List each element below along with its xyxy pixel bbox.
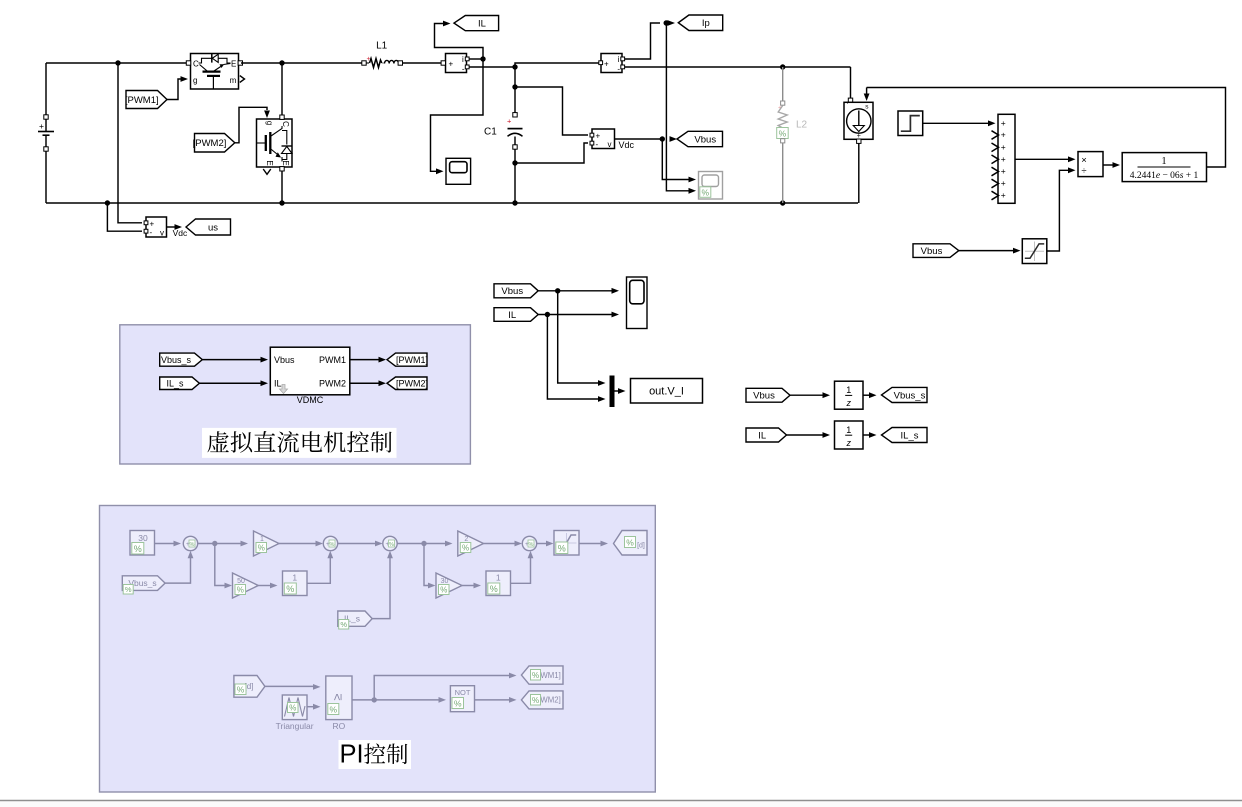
node PI junction 1 (212, 541, 217, 546)
wire PWM1 to IGBT1 gate (167, 79, 181, 100)
goto tag Vbus_s (882, 387, 928, 402)
svg-text:-: - (150, 228, 153, 237)
svg-text:Vdc: Vdc (619, 140, 635, 150)
svg-text:1: 1 (846, 385, 851, 395)
from tag Vbus (middle) (494, 284, 538, 298)
wire battery rail to us meas plus (118, 63, 142, 223)
transistor IGBT1 (IGBT/Diode block) (191, 54, 239, 90)
wire C1 to Vdc plus (515, 87, 588, 135)
node C1 plus tap (512, 84, 517, 89)
goto tag [PWM2] (VDMC) (387, 377, 427, 390)
integrator block I2 (486, 571, 511, 596)
svg-text:1: 1 (496, 573, 501, 583)
inductor L1 (series RL branch) (362, 61, 366, 65)
label 虚拟直流电机控制 (caption) (202, 428, 397, 458)
wire Vbus to scope3 (538, 290, 612, 292)
svg-text:i: i (618, 55, 620, 64)
node IL mid junction (545, 312, 550, 317)
svg-text:': ' (847, 102, 848, 109)
wire junction2 down to gain30 (424, 544, 429, 586)
goto tag IL (454, 16, 499, 31)
svg-text:+: + (1001, 130, 1006, 140)
svg-text:×: × (1081, 155, 1087, 166)
svg-text:1: 1 (846, 425, 851, 435)
svg-text:+: + (449, 60, 454, 69)
svg-text:+: + (39, 121, 44, 131)
label PI控制 (caption) (339, 740, 412, 769)
wire Ip to scope2 in2 (666, 25, 689, 191)
wire const to sum1 (155, 543, 175, 545)
svg-text:-: - (596, 140, 599, 149)
wire bottom bus (46, 202, 858, 204)
window bottom edge (0, 800, 1242, 802)
svg-text:+: + (507, 117, 512, 126)
wire PWM2 to IGBT2 gate (235, 107, 267, 143)
svg-text:+: + (1001, 154, 1006, 164)
svg-text:PI: PI (340, 741, 364, 769)
wire Ip arrow (668, 20, 676, 26)
svg-text:[PWM2]: [PWM2] (193, 138, 227, 149)
from tag IL (delay row) (746, 428, 787, 442)
svg-text:2: 2 (464, 536, 468, 543)
svg-text:%: % (134, 544, 142, 554)
goto tag us (186, 219, 231, 235)
controlled current source CS1 (848, 98, 852, 102)
svg-text:L2: L2 (796, 120, 808, 131)
wire IGBT2 collector up (281, 63, 283, 115)
svg-text:%: % (454, 698, 462, 708)
svg-text:z: z (845, 438, 851, 448)
svg-text:%: % (286, 584, 294, 594)
unit delay 1/z (Vbus) (835, 381, 864, 409)
svg-text:IL: IL (508, 310, 516, 321)
sum circle S3 (383, 536, 397, 550)
wire sum3 to junction2 (397, 543, 446, 545)
node PI junction 2 (421, 541, 426, 546)
node C1 minus tap (512, 160, 517, 165)
svg-text:Vbus: Vbus (501, 286, 523, 297)
svg-text:v: v (160, 228, 164, 237)
sum circle S2 (323, 536, 337, 550)
wire Vbus to scope2 in1 (662, 139, 689, 180)
wire us meas out (167, 226, 176, 228)
wire bus tap to us meas minus (107, 203, 142, 231)
wire triangular to RO (307, 706, 314, 708)
wire junction1 down to gain50 (215, 544, 226, 586)
outport block out.V_I (631, 379, 703, 404)
node C1 top junction (512, 64, 517, 69)
wire Vbus_s to sum1 (165, 557, 190, 583)
from tag Vbus (right) (913, 244, 959, 258)
wire IL up path (435, 24, 484, 60)
svg-text:30: 30 (138, 533, 148, 543)
svg-text:1: 1 (260, 536, 264, 543)
transfer function 1/(4.2441e-06s+1) (1122, 153, 1206, 182)
svg-text:L1: L1 (376, 41, 388, 52)
svg-text:+: + (1001, 142, 1006, 152)
svg-text:1: 1 (1161, 156, 1166, 167)
svg-text:IL: IL (274, 379, 282, 389)
wire TF feedback loop (867, 88, 1226, 168)
svg-text:1: 1 (292, 573, 297, 583)
svg-text:RO: RO (333, 721, 346, 731)
svg-text:PWM2: PWM2 (319, 379, 346, 389)
node RO junction (372, 697, 377, 702)
svg-text:%: % (626, 537, 634, 547)
transistor IGBT2 (IGBT/Diode block, rotated) (257, 119, 293, 167)
svg-text:Vbus_s: Vbus_s (161, 355, 192, 365)
node Vbus mid junction (555, 288, 560, 293)
svg-text:v: v (608, 140, 612, 149)
step source Step (898, 111, 923, 136)
svg-text:%: % (340, 620, 347, 629)
svg-text:%: % (558, 543, 566, 553)
svg-text:Ip: Ip (702, 18, 710, 29)
wire CM2 minus rail (625, 66, 851, 68)
wire product to TF (1103, 164, 1113, 166)
goto tag Ip (678, 15, 722, 31)
svg-text:z: z (845, 398, 851, 408)
inductor L2 (commented through) (782, 67, 784, 101)
svg-text:us: us (208, 222, 218, 233)
gain block G1 (1) (254, 531, 280, 556)
svg-text:PWM1: PWM1 (319, 355, 346, 365)
svg-text:IL: IL (478, 19, 486, 30)
svg-text:[PWM1]: [PWM1] (396, 355, 428, 365)
svg-text:E: E (265, 160, 274, 165)
svg-text:%: % (490, 584, 498, 594)
wire d to RO (265, 685, 314, 687)
wire CM2 i to Ip (625, 23, 661, 59)
svg-text:-: - (617, 65, 620, 74)
svg-text:Triangular: Triangular (276, 721, 314, 731)
product block Divide (1078, 152, 1103, 177)
wire saturation to goto d (579, 543, 602, 545)
from tag [PWM1] (126, 91, 167, 109)
wire sum4 to saturation (537, 543, 547, 545)
wire L1 to current meas (403, 62, 444, 64)
svg-text:[PWM1]: [PWM1] (125, 95, 159, 106)
wire CM1 i out (469, 58, 483, 60)
area box PI control (100, 506, 656, 793)
svg-text:≥: ≥ (331, 693, 345, 700)
area box VDMC (virtual DC motor control) (120, 325, 471, 464)
wire RO to PWM1 (374, 676, 510, 700)
wire IL to mux (547, 315, 598, 400)
svg-text:IL_s: IL_s (901, 430, 919, 441)
svg-text:E: E (231, 59, 236, 68)
current measurement CM1 (446, 54, 467, 73)
current measurement CM2 (601, 54, 622, 73)
goto tag [PWM1] (PI) (521, 666, 563, 684)
svg-text:[PWM2]: [PWM2] (396, 378, 428, 388)
goto tag [PWM2] (PI) (521, 691, 563, 709)
node Ip junction (664, 20, 669, 25)
svg-text:%: % (330, 542, 335, 548)
from tag [PWM2] (195, 134, 235, 153)
wire int2 to sum4 (511, 557, 531, 583)
svg-text:g: g (193, 76, 197, 85)
svg-text:Vbus: Vbus (753, 391, 775, 402)
svg-text:%: % (237, 684, 245, 694)
wire to CM2 (515, 63, 599, 67)
from tag Vbus (delay row) (746, 388, 790, 402)
from tag Vbus_s (PI) (122, 576, 165, 591)
svg-text:30: 30 (441, 578, 449, 585)
svg-text:-: - (462, 65, 465, 74)
svg-text:out.V_I: out.V_I (649, 386, 684, 398)
scope Scope2 (commented out) (699, 172, 723, 200)
wire gain2 to sum4 (484, 543, 516, 545)
wire delay to Vbus_s (863, 394, 869, 396)
wire Vdc out (615, 138, 665, 140)
voltage measurement us (Vdc) (146, 217, 167, 237)
from tag IL_s (PI) (338, 611, 372, 626)
wire add to product (1015, 158, 1069, 160)
from tag IL_s (VDMC) (160, 377, 200, 390)
goto tag [d] (614, 531, 648, 556)
svg-text:+: + (1001, 178, 1006, 188)
svg-text:%: % (532, 696, 539, 705)
node Vbus junction (660, 136, 665, 141)
not block NOT (450, 686, 474, 712)
wire sum2 to sum3 (338, 543, 376, 545)
wire int1 to sum2 (307, 557, 330, 583)
scope Scope1 (446, 158, 471, 184)
svg-text:%: % (462, 543, 469, 552)
svg-text:+: + (1001, 166, 1006, 176)
svg-text:%: % (330, 704, 338, 714)
wire Vbus arrow (670, 136, 678, 142)
svg-text:%: % (702, 187, 710, 197)
svg-text:%: % (258, 543, 265, 552)
wire IGBT2 emitter down (281, 171, 283, 203)
svg-text:NOT: NOT (455, 688, 471, 697)
wire feedback into s port (866, 88, 868, 95)
constant block 30 (130, 531, 155, 556)
wire gain50 to integrator1 (258, 585, 271, 587)
wire scope1 path (431, 59, 484, 171)
svg-text:÷: ÷ (1081, 166, 1086, 177)
DC voltage source E1 (battery) (45, 63, 47, 117)
svg-text:m: m (230, 76, 237, 85)
gain block G4 (30) (436, 573, 462, 598)
svg-text:%: % (289, 703, 296, 712)
wire IL to scope3 (538, 314, 612, 316)
saturation block (1022, 239, 1047, 264)
triangular wave source (282, 695, 307, 720)
scope Scope3 (627, 277, 648, 329)
wire Vbus_s to VDMC (202, 359, 261, 361)
node top-left junction (115, 60, 120, 65)
saturation block (PI) (554, 531, 579, 556)
wire VDMC PWM2 out (350, 382, 379, 384)
wire top rail left (46, 62, 188, 64)
wire Vbus to unit delay (790, 394, 823, 396)
wire IL to unit delay (787, 434, 824, 436)
wire IL_s to VDMC (199, 382, 261, 384)
wire RO out (352, 699, 440, 701)
svg-text:IL: IL (758, 430, 766, 441)
svg-text:%: % (125, 585, 132, 594)
unit delay 1/z (IL) (835, 421, 864, 449)
wire NOT to PWM2 (475, 699, 511, 701)
wire rail to current source (850, 67, 852, 99)
node L2 top junction (780, 64, 785, 69)
wire top rail mid (241, 62, 364, 64)
from tag Vbus_s (VDMC) (160, 353, 203, 366)
wire CM1 minus to C1 node (469, 66, 515, 68)
gain block G2 (2) (458, 531, 484, 556)
svg-text:C: C (193, 59, 199, 68)
svg-text:%: % (529, 542, 534, 548)
svg-text:VDMC: VDMC (297, 395, 324, 405)
gain block G3 (50) (233, 573, 259, 598)
node IL junction (480, 56, 485, 61)
svg-text:g: g (265, 121, 274, 125)
from tag [d] (PI) (234, 676, 265, 698)
sum circle S1 (183, 536, 197, 550)
svg-text:Vbus: Vbus (694, 134, 716, 145)
svg-text:%: % (389, 542, 394, 548)
goto tag IL_s (882, 428, 928, 443)
goto tag Vbus (top) (677, 131, 723, 146)
voltage measurement Vdc (592, 129, 615, 149)
sum block Add (7 inputs) (998, 114, 1015, 203)
from tag IL (middle) (494, 308, 538, 322)
svg-text:4.2441e − 06s + 1: 4.2441e − 06s + 1 (1130, 171, 1199, 181)
integrator block I1 (283, 571, 308, 596)
svg-text:IL_s: IL_s (166, 378, 184, 388)
wire VDMC PWM1 out (350, 359, 379, 361)
svg-text:Vbus: Vbus (274, 355, 295, 365)
capacitor C1 (514, 67, 516, 113)
svg-text:Vbus: Vbus (921, 246, 943, 257)
svg-text:%: % (190, 542, 195, 548)
node bus junctions (105, 200, 110, 205)
node junction IGBT2 top (279, 60, 284, 65)
sum circle S4 (522, 536, 536, 550)
wire Vbus to mux (558, 291, 598, 383)
svg-text:%: % (440, 585, 447, 594)
svg-text:50: 50 (237, 578, 245, 585)
wire step to add (923, 122, 989, 124)
svg-text:i: i (462, 55, 464, 64)
wire mux to out block (615, 390, 619, 392)
wire gain1 to sum2 (279, 543, 317, 545)
svg-text:%: % (237, 585, 244, 594)
wire sum1 to junction (198, 543, 242, 545)
svg-text:+: + (1001, 118, 1006, 128)
wire C1 to Vdc minus (515, 143, 588, 163)
wire delay to IL_s (863, 434, 869, 436)
svg-text:C1: C1 (484, 127, 497, 138)
wire Vbus to saturation (959, 250, 1014, 252)
wire gain30 to integrator2 (462, 585, 475, 587)
wire IL_s to sum3 (372, 557, 390, 619)
svg-text:Vbus_s: Vbus_s (894, 390, 926, 401)
svg-text:+: + (604, 60, 609, 69)
svg-text:%: % (779, 128, 787, 138)
svg-text:+: + (1001, 190, 1006, 200)
svg-text:[d]: [d] (637, 543, 645, 550)
wire saturation to product divide (1047, 170, 1069, 251)
goto tag [PWM1] (VDMC) (387, 353, 427, 366)
svg-text:%: % (532, 671, 539, 680)
mux bar (610, 376, 615, 408)
subsystem block VDMC (270, 347, 350, 395)
relational operator RO (326, 676, 352, 720)
